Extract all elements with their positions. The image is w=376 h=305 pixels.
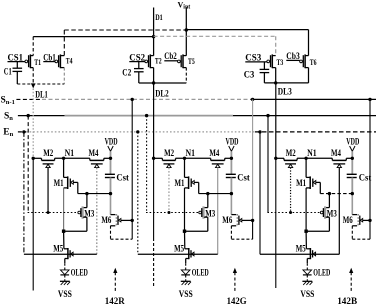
wire T1 bottom stub (dashed) bbox=[32, 68, 34, 84]
ground VSS symbol (B) bbox=[302, 280, 312, 282]
svg-text:C3: C3 bbox=[244, 70, 255, 80]
svg-text:N1: N1 bbox=[65, 148, 75, 158]
wire OLED to VSS (dashed) (G) bbox=[185, 275, 187, 281]
wire Vint to T6 rail bbox=[186, 29, 308, 31]
diode OLED (R) bbox=[64, 263, 66, 270]
junction DL-M2 G bbox=[152, 157, 155, 160]
wire M6 bottom loop (dashed) (B) bbox=[351, 226, 353, 239]
wire demux cell1 bottom (dashed) bbox=[17, 83, 64, 85]
transistor T6 bbox=[300, 60, 303, 63]
wire T6 bottom stub bbox=[308, 68, 310, 83]
VDD line (grey) (G) bbox=[230, 151, 232, 174]
En gate wire (R) bbox=[24, 253, 97, 255]
svg-text:Cst: Cst bbox=[116, 172, 129, 182]
Sn-1 branch column R bbox=[131, 98, 134, 101]
En gate wire (G) bbox=[138, 253, 218, 255]
pixel top wire B bbox=[276, 157, 284, 159]
transistor M5 (R) bbox=[63, 231, 65, 249]
scan branch Sn column B bbox=[266, 114, 269, 117]
transistor M5 (B) bbox=[305, 231, 307, 249]
wire demux cell2 bottom bbox=[139, 82, 187, 84]
scan line Sn bbox=[18, 115, 65, 117]
gate line M2 (R) bbox=[47, 168, 49, 213]
junction DL2 top bbox=[152, 81, 155, 84]
junction DL3 top bbox=[274, 81, 277, 84]
wire OLED to VSS (dashed) (B) bbox=[306, 275, 308, 281]
gate wire M6 to Sn-1 branch (B) bbox=[363, 219, 370, 221]
capacitor Cst (R) bbox=[105, 173, 115, 175]
wire M3 top (R) bbox=[86, 194, 88, 208]
node D1 vertical line bbox=[153, 8, 155, 56]
capacitor Cst (G) bbox=[226, 173, 236, 175]
svg-text:M6: M6 bbox=[343, 215, 353, 225]
svg-text:T5: T5 bbox=[188, 56, 195, 66]
transistor M3 (R) bbox=[83, 207, 87, 209]
svg-text:VDD: VDD bbox=[226, 137, 239, 147]
Sn gate wire (dotted) (R) bbox=[28, 212, 78, 214]
bottom node wire (R) bbox=[62, 230, 65, 233]
svg-text:142B: 142B bbox=[337, 297, 358, 305]
storage node wire (G) bbox=[199, 193, 232, 195]
junction DL-M2 B bbox=[274, 157, 277, 160]
gate line M4 (R) bbox=[96, 168, 98, 255]
svg-text:Cb2: Cb2 bbox=[164, 51, 177, 61]
svg-text:Cb1: Cb1 bbox=[43, 52, 56, 62]
wire D1 to T3 rail (grey dashed) bbox=[154, 35, 276, 37]
junction M3 top tee (B) bbox=[328, 192, 331, 195]
data line DL1 vertical bbox=[32, 89, 34, 159]
junction M3 top tee (R) bbox=[85, 192, 88, 195]
svg-text:OLED: OLED bbox=[192, 268, 209, 278]
gate wire M1 to storage node (G) bbox=[194, 181, 199, 183]
svg-text:M3: M3 bbox=[327, 209, 337, 219]
svg-text:VSS: VSS bbox=[58, 289, 72, 299]
svg-text:T2: T2 bbox=[155, 55, 162, 65]
gate wire M1 to storage node (R) bbox=[73, 181, 78, 183]
transistor M6 (R) bbox=[111, 214, 116, 216]
storage node wire (R) bbox=[78, 193, 111, 195]
transistor M6 (B) bbox=[352, 214, 357, 216]
junction Cst bottom (G) bbox=[230, 192, 233, 195]
junction M3 top tee (G) bbox=[206, 192, 209, 195]
gate wire M6 to Sn-1 branch (R) bbox=[121, 219, 132, 221]
wire T3 bottom stub bbox=[275, 68, 277, 83]
svg-text:M2: M2 bbox=[286, 148, 296, 158]
svg-text:M2: M2 bbox=[43, 148, 53, 158]
scan branch Sn column R bbox=[27, 114, 30, 117]
wire M6 bottom loop (dashed) (G) bbox=[230, 226, 232, 239]
transistor T4 bbox=[55, 60, 58, 63]
node N1 (B) bbox=[304, 157, 307, 160]
node N1 (G) bbox=[183, 157, 186, 160]
pointer arrow 142B bbox=[350, 272, 352, 291]
Sn gate wire (dotted) (B) bbox=[267, 212, 320, 214]
node Vint vertical line bbox=[185, 7, 187, 56]
junction VDD-topwire (G) bbox=[230, 157, 233, 160]
emission line En bbox=[18, 131, 26, 133]
svg-text:T6: T6 bbox=[310, 57, 317, 67]
svg-text:N1: N1 bbox=[307, 148, 317, 158]
junction D1 rail bbox=[152, 35, 155, 38]
gate wire M6 to Sn-1 branch (G) bbox=[242, 219, 253, 221]
svg-text:CS1: CS1 bbox=[8, 52, 24, 62]
transistor M2 (G) bbox=[161, 158, 163, 160]
ground VSS symbol (G) bbox=[181, 280, 191, 282]
diode OLED (B) bbox=[306, 263, 308, 270]
wire T4 bottom stub (grey dashed) bbox=[63, 68, 65, 84]
svg-text:T3: T3 bbox=[277, 57, 284, 67]
transistor M4 (G) bbox=[210, 158, 212, 160]
gate line M2 (B) bbox=[290, 168, 292, 213]
svg-text:C2: C2 bbox=[122, 68, 131, 78]
svg-text:OLED: OLED bbox=[71, 268, 88, 278]
junction Cst bottom (R) bbox=[109, 192, 112, 195]
wire M3 top (G) bbox=[207, 194, 209, 208]
VDD line (grey) (R) bbox=[110, 151, 112, 174]
bottom node wire (G) bbox=[183, 230, 186, 233]
svg-text:Cst: Cst bbox=[237, 172, 250, 182]
gate line M4 (B) bbox=[338, 168, 340, 255]
pointer arrow 142G bbox=[234, 272, 236, 291]
svg-text:M1: M1 bbox=[54, 178, 64, 188]
svg-text:M5: M5 bbox=[174, 244, 184, 254]
junction Vint rail bbox=[185, 28, 188, 31]
wire T2 bottom stub bbox=[153, 68, 155, 83]
wire Vint to T4 rail (dashed) bbox=[64, 29, 186, 31]
emission branch En column B bbox=[258, 130, 261, 133]
svg-text:M1: M1 bbox=[175, 178, 185, 188]
node N1 (R) bbox=[62, 157, 65, 160]
wire T5 bottom stub (dashed) bbox=[185, 68, 187, 83]
data line DL2 vertical bbox=[153, 83, 155, 158]
svg-text:VDD: VDD bbox=[105, 137, 118, 147]
ground VSS symbol (R) bbox=[60, 280, 70, 282]
svg-text:N1: N1 bbox=[186, 148, 196, 158]
junction DL-M2 R bbox=[32, 157, 35, 160]
Sn-1 branch column B bbox=[368, 98, 371, 101]
svg-text:M5: M5 bbox=[296, 244, 306, 254]
transistor T3 bbox=[267, 60, 270, 63]
junction VDD-topwire (B) bbox=[351, 157, 354, 160]
svg-text:142R: 142R bbox=[105, 297, 125, 305]
wire M6 bottom loop (dashed) (R) bbox=[110, 226, 112, 239]
data line DL3 vertical bbox=[275, 83, 277, 158]
svg-text:CS2: CS2 bbox=[129, 52, 145, 62]
wire T1 top stub (dashed) bbox=[32, 37, 34, 56]
svg-text:M4: M4 bbox=[331, 148, 341, 158]
emission branch En column R bbox=[22, 130, 25, 133]
storage node wire (B) bbox=[320, 193, 352, 195]
wire M1 drain down (B) bbox=[305, 188, 307, 231]
svg-text:M6: M6 bbox=[101, 215, 111, 225]
transistor M3 (B) bbox=[326, 207, 330, 209]
wire M1 drain down (G) bbox=[184, 188, 186, 231]
wire M3 top (B) bbox=[328, 194, 330, 208]
transistor T2 bbox=[145, 60, 148, 63]
wire OLED to VSS (dashed) (R) bbox=[64, 275, 66, 281]
transistor T5 bbox=[178, 60, 181, 63]
junction arrow into DL1 bbox=[31, 83, 36, 88]
gate line M4 (G) bbox=[217, 168, 219, 255]
svg-text:142G: 142G bbox=[227, 297, 248, 305]
svg-text:D1: D1 bbox=[155, 13, 163, 22]
svg-text:VDD: VDD bbox=[346, 137, 359, 147]
gate wire M1 to storage node (B) bbox=[316, 181, 321, 183]
wire M1 drain down (R) bbox=[63, 188, 65, 231]
Sn-1 branch column G bbox=[251, 98, 254, 101]
transistor M4 (B) bbox=[331, 158, 333, 160]
En gate wire (B) bbox=[260, 253, 339, 255]
svg-text:DL1: DL1 bbox=[35, 89, 48, 99]
svg-text:M6: M6 bbox=[222, 215, 232, 225]
svg-text:T4: T4 bbox=[66, 55, 73, 65]
svg-text:CS3: CS3 bbox=[245, 52, 261, 62]
svg-text:M2: M2 bbox=[164, 148, 174, 158]
transistor M1 (R) bbox=[63, 158, 65, 177]
svg-text:C1: C1 bbox=[4, 67, 12, 77]
svg-text:M5: M5 bbox=[53, 244, 63, 254]
svg-text:DL3: DL3 bbox=[278, 87, 292, 97]
svg-text:VSS: VSS bbox=[179, 289, 193, 299]
capacitor C3 bbox=[263, 62, 265, 70]
svg-text:T1: T1 bbox=[34, 57, 41, 67]
capacitor C1 bbox=[16, 62, 18, 69]
junction Cst bottom (B) bbox=[351, 192, 354, 195]
svg-text:M1: M1 bbox=[296, 178, 306, 188]
svg-text:M3: M3 bbox=[205, 209, 215, 219]
emission branch En column G bbox=[136, 130, 139, 133]
diode OLED (G) bbox=[185, 263, 187, 270]
Sn gate wire (dotted) (G) bbox=[146, 212, 199, 214]
svg-text:M4: M4 bbox=[89, 148, 99, 158]
svg-text:Cb3: Cb3 bbox=[286, 51, 300, 61]
wire D1 to T1 rail bbox=[33, 36, 153, 38]
pixel top wire R bbox=[33, 157, 41, 159]
wire demux cell3 bottom bbox=[264, 82, 308, 84]
junction VDD-topwire (R) bbox=[109, 157, 112, 160]
gate line M2 (G) bbox=[168, 168, 170, 213]
transistor M5 (G) bbox=[184, 231, 186, 249]
svg-text:DL2: DL2 bbox=[155, 88, 169, 98]
transistor M2 (B) bbox=[283, 158, 285, 160]
svg-text:M3: M3 bbox=[84, 209, 94, 219]
capacitor Cst (B) bbox=[347, 173, 357, 175]
scan line Sn-1 bbox=[16, 98, 42, 100]
transistor M1 (G) bbox=[184, 158, 186, 177]
svg-text:OLED: OLED bbox=[313, 268, 330, 278]
transistor M1 (B) bbox=[305, 158, 307, 177]
scan branch Sn column G bbox=[145, 114, 148, 117]
svg-text:M4: M4 bbox=[209, 148, 219, 158]
svg-text:VSS: VSS bbox=[300, 289, 314, 299]
VDD line (grey) (B) bbox=[351, 151, 353, 174]
svg-text:Cst: Cst bbox=[359, 172, 372, 182]
pixel top wire G bbox=[154, 157, 163, 159]
transistor M4 (R) bbox=[89, 158, 91, 160]
bottom node wire (B) bbox=[304, 230, 307, 233]
transistor M6 (G) bbox=[231, 214, 236, 216]
pointer arrow 142R bbox=[114, 272, 116, 291]
capacitor C2 bbox=[138, 62, 140, 69]
transistor T1 bbox=[25, 60, 28, 63]
transistor M2 (R) bbox=[41, 158, 43, 160]
transistor M3 (G) bbox=[204, 207, 208, 209]
